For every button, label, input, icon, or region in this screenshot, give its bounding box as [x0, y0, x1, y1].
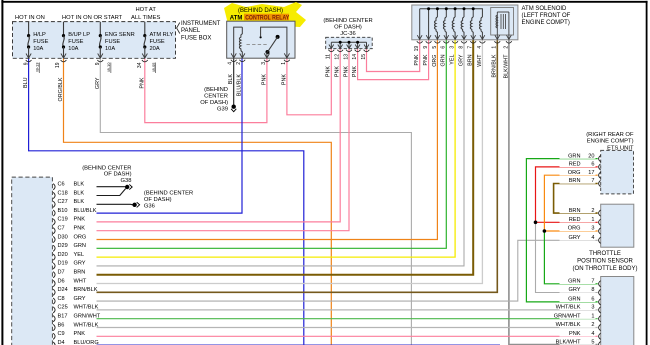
svg-text:I8-10: I8-10 — [106, 62, 111, 72]
svg-text:WHT/BLK: WHT/BLK — [74, 305, 99, 311]
svg-text:OF DASH): OF DASH) — [200, 100, 228, 106]
solenoid bus junction — [427, 7, 430, 10]
solenoid coil — [445, 9, 447, 17]
svg-text:BLK/WHT: BLK/WHT — [503, 54, 509, 79]
svg-text:ORG: ORG — [432, 55, 438, 67]
svg-text:BRN: BRN — [569, 208, 581, 214]
node D7 BRN — [53, 272, 55, 278]
relay switch — [261, 27, 287, 57]
throttle position sensor box — [601, 204, 634, 247]
node D20 YEL — [53, 254, 55, 260]
wire GRN junction to lower unit pin 7 — [544, 231, 597, 284]
svg-text:FUSE: FUSE — [150, 39, 165, 45]
svg-text:3: 3 — [450, 46, 456, 49]
svg-text:H/LP: H/LP — [33, 32, 46, 38]
node unit BLK/WHT 5 — [560, 337, 596, 344]
svg-text:10A: 10A — [105, 46, 115, 52]
svg-text:D20: D20 — [58, 252, 68, 258]
node B17 GRN/WHT — [53, 316, 55, 322]
svg-text:RED: RED — [569, 217, 581, 223]
wire YEL solenoid pin 3 to connector D20 — [97, 40, 456, 257]
svg-text:PNK: PNK — [326, 66, 332, 77]
fuse ENG SENR 10A — [99, 22, 101, 35]
svg-text:PNK: PNK — [352, 66, 358, 77]
svg-text:7: 7 — [468, 46, 474, 49]
svg-text:6: 6 — [591, 162, 594, 168]
wire PNK JC-36 pin 14 to solenoid pin 9 — [358, 40, 429, 80]
svg-text:BRN/BLK: BRN/BLK — [492, 54, 498, 77]
ground G39 — [232, 105, 236, 109]
node unit WHT/BLK 2 — [560, 320, 596, 327]
svg-text:5: 5 — [591, 339, 594, 345]
svg-text:17: 17 — [588, 170, 594, 176]
svg-text:11: 11 — [326, 54, 332, 59]
svg-text:(BEHIND CENTER: (BEHIND CENTER — [82, 165, 131, 171]
svg-text:CONTROL RELAY: CONTROL RELAY — [245, 15, 289, 21]
JC-36 bus junction — [348, 41, 351, 44]
svg-text:D30: D30 — [58, 234, 68, 240]
svg-text:(BEHIND CENTER: (BEHIND CENTER — [144, 191, 193, 197]
svg-text:BLK: BLK — [74, 190, 85, 196]
wire PNK JC-36 pin 12 to connector C19 — [97, 48, 341, 222]
svg-text:HOT AT: HOT AT — [136, 7, 157, 13]
svg-text:ATM RLY: ATM RLY — [150, 32, 174, 38]
wire BLK connector C27 to ground G36 — [97, 203, 133, 206]
wire PNK connector C9 to lower unit pin 4 — [97, 335, 598, 337]
svg-text:(LEFT FRONT OF: (LEFT FRONT OF — [522, 13, 571, 19]
svg-text:HOT IN ON OR START: HOT IN ON OR START — [62, 15, 123, 21]
node TPS RED 1 — [560, 215, 596, 222]
svg-text:D4: D4 — [58, 340, 65, 345]
wire WHT/BLK connector B6 to lower unit pin 2 — [97, 327, 598, 329]
svg-text:BRN/BLK: BRN/BLK — [74, 287, 98, 293]
svg-text:FUSE BOX: FUSE BOX — [181, 35, 211, 41]
node D6 WHT — [53, 280, 55, 286]
ground G36 — [132, 203, 136, 207]
svg-text:BLU/BLK: BLU/BLK — [237, 74, 243, 97]
svg-text:YEL: YEL — [450, 55, 456, 65]
svg-text:WHT/BLK: WHT/BLK — [74, 322, 99, 328]
svg-text:ENG SENR: ENG SENR — [105, 32, 135, 38]
svg-text:4: 4 — [228, 62, 234, 65]
wire PNK JC-36 pin 13 to connector C7 — [97, 48, 350, 231]
wire BLK connector C6 to ground G38 — [97, 186, 126, 188]
ATM solenoid box — [412, 5, 518, 40]
svg-text:9: 9 — [23, 62, 29, 65]
svg-text:ENGINE COMPT): ENGINE COMPT) — [522, 20, 570, 26]
junction connector JC-36 box — [326, 37, 373, 48]
relay coil-switch link — [247, 44, 269, 46]
node TPS ORG 3 — [560, 224, 596, 231]
wire ORG/BLK from B/UP LP fuse to off-page bottom — [64, 57, 332, 345]
JC-36 bus junction — [339, 41, 342, 44]
svg-text:3: 3 — [591, 305, 594, 311]
svg-text:B/UP LP: B/UP LP — [68, 32, 90, 38]
svg-text:FUSE: FUSE — [33, 39, 48, 45]
svg-text:I8-05: I8-05 — [151, 62, 156, 72]
svg-text:(BEHIND: (BEHIND — [204, 87, 228, 93]
svg-text:10A: 10A — [33, 46, 43, 52]
svg-text:PNK: PNK — [74, 226, 86, 232]
svg-text:OF DASH): OF DASH) — [334, 25, 362, 31]
svg-text:2: 2 — [591, 208, 594, 214]
svg-text:2: 2 — [591, 322, 594, 328]
svg-text:BLU/BLK: BLU/BLK — [74, 208, 97, 214]
svg-text:20A: 20A — [150, 46, 160, 52]
svg-text:PNK: PNK — [335, 66, 341, 77]
fuse H/LP 10A — [28, 22, 30, 35]
svg-text:ORG: ORG — [568, 170, 581, 176]
svg-text:ORG: ORG — [568, 226, 581, 232]
svg-text:4: 4 — [591, 235, 594, 241]
svg-text:FUSE: FUSE — [105, 39, 120, 45]
wire RED ETS pin 6 junction to TPS pin 1 — [536, 167, 598, 222]
node D30 ORG — [53, 236, 55, 242]
svg-text:ETS UNIT: ETS UNIT — [607, 145, 634, 151]
wire GRN ETS pin 20 to lower unit pin 6 — [526, 159, 597, 302]
svg-text:C25: C25 — [58, 305, 68, 311]
solenoid bus junction — [454, 7, 457, 10]
svg-text:C7: C7 — [58, 226, 65, 232]
wire BRN/BLK solenoid pin 1 to connector D24 — [97, 40, 498, 292]
svg-text:1: 1 — [591, 217, 594, 223]
svg-text:34: 34 — [137, 62, 143, 68]
svg-text:ALL TIMES: ALL TIMES — [131, 15, 160, 21]
node ETS BRN 7 — [560, 176, 596, 183]
svg-text:C8: C8 — [58, 296, 65, 302]
svg-text:BRN: BRN — [468, 54, 474, 65]
solenoid lockup coil sub-box — [491, 8, 514, 36]
svg-text:OF DASH): OF DASH) — [104, 172, 132, 178]
svg-text:15: 15 — [361, 54, 367, 60]
wire ORG solenoid pin 5 to connector D30 — [97, 40, 438, 240]
ground G38 — [125, 185, 129, 189]
node unit WHT/BLK 3 — [560, 303, 596, 310]
svg-text:(RIGHT REAR OF: (RIGHT REAR OF — [586, 132, 634, 138]
solenoid coil — [480, 17, 483, 39]
svg-text:GRN/WHT: GRN/WHT — [74, 314, 101, 320]
node C7 PNK — [53, 228, 55, 234]
svg-text:GRY: GRY — [95, 77, 101, 89]
svg-text:1: 1 — [281, 62, 287, 65]
svg-text:ORG/BLK: ORG/BLK — [58, 77, 64, 101]
JC-36 bus — [331, 41, 366, 43]
wire GRY from ENG SENR fuse to off-page bottom — [100, 57, 411, 345]
svg-text:PANEL: PANEL — [181, 28, 201, 34]
node ETS GRN 20 — [560, 151, 596, 158]
svg-text:D29: D29 — [58, 243, 68, 249]
solenoid bus — [420, 9, 483, 17]
svg-text:GRY: GRY — [458, 54, 464, 66]
fuse ATM RLY 20A — [144, 22, 146, 35]
svg-text:14: 14 — [352, 54, 358, 60]
svg-text:6: 6 — [591, 297, 594, 303]
node TPS BRN 2 — [560, 206, 596, 213]
svg-text:(BEHIND DASH): (BEHIND DASH) — [238, 8, 283, 14]
wire GRY junction to lower unit pin 8 — [536, 222, 598, 292]
svg-text:5: 5 — [432, 46, 438, 49]
wire BRN ETS pin 7 to TPS pin 2 — [554, 184, 598, 214]
svg-text:2: 2 — [236, 62, 242, 65]
solenoid coil — [463, 9, 465, 17]
solenoid bus junction — [472, 7, 475, 10]
wire BLK connector C18 to ground G38 — [97, 189, 126, 196]
ECM connector box — [12, 177, 53, 345]
svg-text:CENTER: CENTER — [204, 94, 228, 100]
svg-text:B10: B10 — [58, 208, 68, 214]
svg-text:ATM: ATM — [230, 15, 243, 21]
svg-text:PNK: PNK — [261, 74, 267, 85]
wire GRY connector C8 to TPS pin 4 — [97, 240, 598, 301]
svg-text:PNK: PNK — [74, 331, 86, 337]
svg-text:BRN: BRN — [74, 270, 86, 276]
svg-text:YEL: YEL — [74, 252, 85, 258]
page border right — [646, 1, 648, 345]
wire WHT solenoid pin 4 to connector D6 — [97, 40, 483, 284]
svg-text:BLK/WHT: BLK/WHT — [556, 339, 581, 345]
highlighter mark over relay title — [224, 2, 306, 28]
svg-text:POSITION SENSOR: POSITION SENSOR — [577, 258, 633, 264]
svg-text:THROTTLE: THROTTLE — [589, 251, 621, 257]
node unit GRN/WHT 1 — [560, 312, 596, 319]
svg-text:PNK: PNK — [569, 331, 581, 337]
svg-text:GRY: GRY — [568, 287, 580, 293]
node D19 GRY — [53, 263, 55, 269]
node C27 BLK — [53, 201, 55, 207]
solenoid coil — [454, 9, 456, 17]
svg-text:C6: C6 — [58, 182, 65, 188]
svg-text:19: 19 — [55, 62, 61, 68]
svg-text:C18: C18 — [58, 190, 68, 196]
node B6 WHT/BLK — [53, 324, 55, 330]
solenoid bus junction — [436, 7, 439, 10]
svg-text:9: 9 — [95, 62, 101, 65]
wire BLU/BLK relay pin 2 to connector B10 — [97, 57, 243, 213]
svg-text:WHT/BLK: WHT/BLK — [556, 305, 581, 311]
svg-text:2: 2 — [503, 46, 509, 49]
svg-text:BLK: BLK — [74, 199, 85, 205]
solenoid coil — [472, 9, 474, 17]
page border left — [1, 0, 3, 345]
svg-text:BLK: BLK — [74, 182, 85, 188]
svg-text:JC-36: JC-36 — [340, 31, 355, 37]
svg-text:WHT: WHT — [74, 278, 87, 284]
svg-text:D6: D6 — [58, 278, 65, 284]
relay coil — [234, 27, 243, 57]
wire BLK relay pin 4 to ground G39 — [233, 57, 235, 105]
svg-text:B6: B6 — [58, 322, 65, 328]
svg-text:G39: G39 — [217, 106, 228, 112]
svg-text:GRY: GRY — [74, 261, 86, 267]
wire PNK JC-36 pin 15 to solenoid pin 19 — [367, 40, 420, 72]
svg-text:C27: C27 — [58, 199, 68, 205]
svg-text:PNK: PNK — [343, 66, 349, 77]
wire GRN solenoid pin 6 to connector D29 — [97, 40, 447, 249]
wire BLU/ORG connector D4 — [97, 344, 501, 345]
svg-text:(ON THROTTLE BODY): (ON THROTTLE BODY) — [573, 266, 638, 272]
wire BLU from H/LP fuse to off-page bottom — [29, 57, 304, 345]
node TPS GRY 4 — [560, 233, 596, 240]
svg-text:8: 8 — [458, 46, 464, 49]
svg-text:RED: RED — [569, 162, 581, 168]
node B10 BLU/BLK — [53, 210, 55, 216]
lower control unit box — [601, 277, 634, 345]
solenoid coil — [436, 9, 438, 17]
svg-text:D7: D7 — [58, 270, 65, 276]
node unit GRY 8 — [560, 285, 596, 292]
svg-text:PNK: PNK — [281, 74, 287, 85]
svg-text:8: 8 — [591, 287, 594, 293]
node C25 WHT/BLK — [53, 307, 55, 313]
svg-text:D24: D24 — [58, 287, 68, 293]
node D4 BLU/ORG — [53, 342, 55, 345]
node C19 PNK — [53, 219, 55, 225]
svg-text:7: 7 — [591, 279, 594, 285]
fuse B/UP LP 10A — [63, 22, 65, 35]
svg-text:OF DASH): OF DASH) — [144, 197, 172, 203]
svg-text:BLK: BLK — [228, 74, 234, 85]
wire GRY solenoid pin 8 to connector D19 — [97, 40, 465, 266]
svg-text:G36: G36 — [144, 203, 155, 209]
svg-text:1: 1 — [492, 46, 498, 49]
junction node RED/GRY — [534, 221, 538, 225]
svg-text:GRN: GRN — [568, 279, 580, 285]
svg-text:20: 20 — [588, 153, 594, 159]
svg-text:PNK: PNK — [139, 77, 145, 88]
wire PNK relay pin 1 to JC-36 pin 11 — [287, 48, 331, 115]
svg-text:GRN: GRN — [568, 153, 580, 159]
svg-text:HOT IN ON: HOT IN ON — [15, 15, 45, 21]
svg-text:12: 12 — [335, 54, 341, 60]
node C8 GRY — [53, 298, 55, 304]
svg-text:BLU/ORG: BLU/ORG — [74, 340, 99, 345]
JC-36 bus junction — [356, 41, 359, 44]
node C6 BLK — [53, 184, 55, 190]
svg-text:WHT: WHT — [477, 54, 483, 67]
svg-text:PNK: PNK — [414, 54, 420, 65]
svg-text:C19: C19 — [58, 217, 68, 223]
svg-text:10A: 10A — [68, 46, 78, 52]
wire WHT/BLK connector C25 to lower unit pin 3 — [97, 309, 598, 311]
node D29 GRN — [53, 245, 55, 251]
svg-text:D19: D19 — [58, 261, 68, 267]
svg-text:GRY: GRY — [568, 235, 580, 241]
svg-text:19: 19 — [414, 46, 420, 52]
wire GRN/WHT connector B17 to lower unit pin 1 — [97, 318, 598, 320]
svg-text:GRN/WHT: GRN/WHT — [554, 313, 581, 319]
node C9 PNK — [53, 333, 55, 339]
svg-text:(BEHIND CENTER: (BEHIND CENTER — [323, 18, 372, 24]
solenoid bus junction — [445, 7, 448, 10]
node ETS ORG 17 — [560, 168, 596, 175]
svg-text:PNK: PNK — [423, 54, 429, 65]
svg-text:WHT/BLK: WHT/BLK — [556, 322, 581, 328]
relay U1 ATM control relay box — [227, 21, 295, 58]
svg-text:BRN: BRN — [569, 178, 581, 184]
wire ORG ETS pin 17 junction to TPS pin 3 — [544, 175, 597, 231]
ETS unit box — [601, 150, 634, 194]
instrument panel fuse box — [13, 22, 176, 59]
svg-text:4: 4 — [477, 46, 483, 49]
node D24 BRN/BLK — [53, 289, 55, 295]
svg-text:C9: C9 — [58, 331, 65, 337]
wire PNK from ATM RLY fuse to relay pin 3 — [145, 57, 267, 123]
svg-text:ENGINE COMPT): ENGINE COMPT) — [587, 139, 634, 145]
node C18 BLK — [53, 192, 55, 198]
svg-text:13: 13 — [343, 54, 349, 60]
page border top — [1, 1, 647, 3]
junction node ORG/GRN — [543, 229, 547, 233]
node ETS RED 6 — [560, 160, 596, 167]
svg-text:7: 7 — [591, 178, 594, 184]
wire BLK/WHT solenoid pin 2 to lower unit pin 5 — [509, 40, 598, 345]
node unit GRN 7 — [560, 277, 596, 284]
svg-text:ORG: ORG — [74, 234, 87, 240]
svg-text:9: 9 — [423, 46, 429, 49]
svg-text:BLU: BLU — [23, 77, 29, 88]
svg-text:1: 1 — [591, 313, 594, 319]
node unit PNK 4 — [560, 329, 596, 336]
svg-text:FUSE: FUSE — [68, 39, 83, 45]
svg-text:3: 3 — [591, 226, 594, 232]
svg-text:3: 3 — [261, 62, 267, 65]
svg-text:GRN: GRN — [74, 243, 86, 249]
svg-text:GRN: GRN — [441, 54, 447, 66]
svg-text:B17: B17 — [58, 314, 68, 320]
node unit GRN 6 — [560, 295, 596, 302]
svg-text:GRY: GRY — [74, 296, 86, 302]
svg-text:ATM SOLENOID: ATM SOLENOID — [522, 6, 568, 12]
svg-text:4: 4 — [591, 331, 594, 337]
svg-text:G38: G38 — [121, 178, 132, 184]
svg-text:GRN: GRN — [568, 297, 580, 303]
svg-text:I8-13: I8-13 — [35, 62, 40, 72]
solenoid bus junction — [463, 7, 466, 10]
svg-text:PNK: PNK — [74, 217, 86, 223]
svg-text:6: 6 — [441, 46, 447, 49]
wire BRN solenoid pin 7 to connector D7 — [97, 40, 474, 275]
svg-text:INSTRUMENT: INSTRUMENT — [181, 21, 221, 27]
